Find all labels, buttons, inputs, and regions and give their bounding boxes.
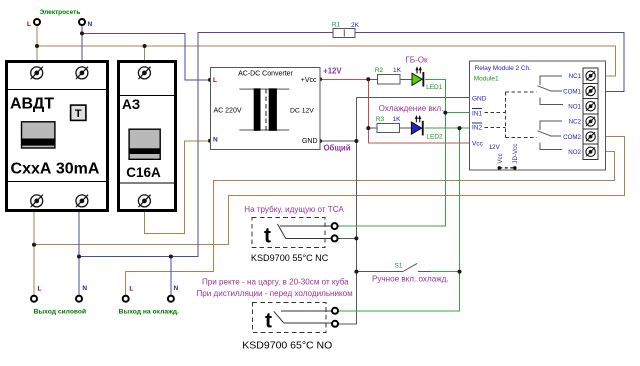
svg-text:СххА 30mA: СххА 30mA (11, 161, 100, 178)
svg-text:Выход силовой: Выход силовой (34, 308, 87, 316)
svg-text:AC 220V: AC 220V (214, 108, 242, 115)
svg-text:Электросеть: Электросеть (40, 9, 81, 16)
svg-text:1K: 1K (393, 67, 402, 74)
svg-text:T: T (75, 108, 82, 120)
svg-text:IN2: IN2 (472, 125, 483, 132)
svg-text:Выход на охлажд.: Выход на охлажд. (119, 309, 179, 316)
svg-text:GND: GND (472, 96, 487, 103)
svg-text:Общий: Общий (323, 143, 350, 152)
svg-text:N: N (174, 285, 179, 292)
svg-text:IN1: IN1 (472, 110, 483, 117)
svg-text:LED2: LED2 (426, 134, 443, 141)
svg-text:NO1: NO1 (568, 104, 581, 111)
svg-text:Vcc: Vcc (497, 153, 504, 163)
svg-text:L: L (129, 285, 133, 292)
svg-text:АЗ: АЗ (122, 97, 140, 112)
svg-text:DC 12V: DC 12V (290, 107, 314, 114)
svg-text:АВДТ: АВДТ (10, 95, 54, 112)
svg-text:На трубку, идущую от ТСА: На трубку, идущую от ТСА (244, 205, 344, 214)
svg-text:JD-Vcc: JD-Vcc (512, 144, 519, 164)
svg-text:N: N (82, 285, 87, 292)
svg-text:Охлаждение вкл.: Охлаждение вкл. (379, 104, 444, 113)
svg-text:COM1: COM1 (563, 88, 581, 95)
svg-text:Relay Module 2 Ch.: Relay Module 2 Ch. (475, 65, 531, 72)
svg-text:При дистилляции - перед холоди: При дистилляции - перед холодильником (196, 289, 352, 298)
svg-text:С16А: С16А (126, 165, 161, 180)
svg-text:Module1: Module1 (474, 75, 499, 82)
svg-text:ГБ-Ок: ГБ-Ок (405, 55, 428, 64)
svg-text:S1: S1 (395, 263, 403, 270)
svg-text:1K: 1K (393, 116, 402, 123)
svg-text:L: L (38, 285, 42, 292)
svg-text:L: L (213, 77, 217, 84)
svg-text:LED1: LED1 (426, 84, 443, 91)
svg-text:Ручное вкл. охлажд.: Ручное вкл. охлажд. (372, 274, 449, 283)
svg-text:KSD9700 65°C NO: KSD9700 65°C NO (242, 340, 332, 352)
svg-text:NC2: NC2 (569, 119, 582, 126)
svg-text:R1: R1 (332, 22, 341, 29)
svg-text:2K: 2K (351, 22, 360, 29)
svg-text:+Vcc: +Vcc (301, 77, 317, 84)
svg-text:R2: R2 (375, 67, 384, 74)
svg-text:L: L (27, 21, 31, 28)
svg-text:COM2: COM2 (563, 134, 581, 141)
svg-text:12V: 12V (489, 144, 501, 151)
svg-text:N: N (88, 21, 93, 28)
svg-text:KSD9700 55°C NC: KSD9700 55°C NC (251, 253, 329, 263)
svg-text:При ректе - на царгу, в 20-30с: При ректе - на царгу, в 20-30см от куба (202, 277, 349, 286)
svg-text:Vcc: Vcc (472, 140, 484, 147)
svg-text:NC1: NC1 (569, 73, 582, 80)
svg-text:AC-DC Converter: AC-DC Converter (238, 70, 294, 77)
svg-text:R3: R3 (376, 116, 385, 123)
svg-text:N: N (213, 137, 218, 144)
svg-text:t: t (265, 310, 272, 333)
svg-text:+12V: +12V (323, 67, 342, 76)
svg-text:NO2: NO2 (568, 149, 581, 156)
svg-text:t: t (264, 225, 271, 248)
svg-text:GND: GND (302, 138, 318, 145)
